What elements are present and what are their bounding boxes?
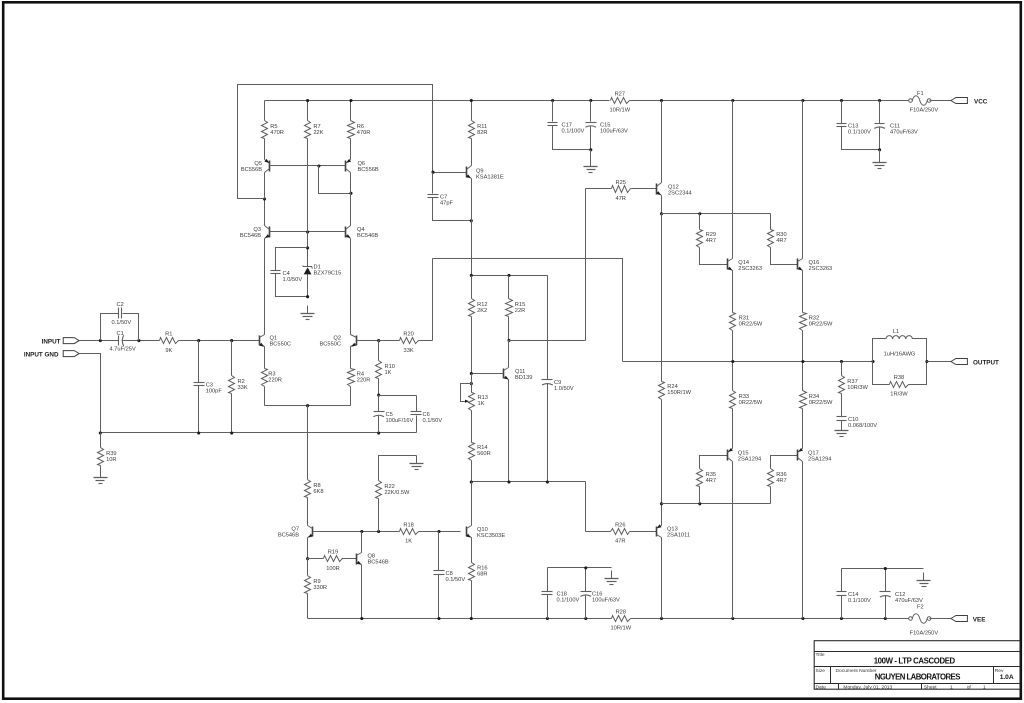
transistor Q6 bbox=[346, 159, 352, 173]
transistor Q9 bbox=[466, 166, 471, 179]
wire C4 branch top bbox=[276, 248, 308, 271]
fuse F1 bbox=[909, 91, 939, 114]
wire Q3 emitter to Q1 collector bbox=[264, 239, 266, 335]
junction bot C8 bbox=[437, 617, 440, 620]
label Q4 bbox=[357, 227, 378, 239]
svg-text:2K2: 2K2 bbox=[477, 308, 487, 314]
svg-text:9K: 9K bbox=[165, 348, 172, 354]
junction input node A bbox=[99, 339, 102, 342]
transistor Q14 bbox=[728, 259, 733, 271]
wire Q14 collector bbox=[732, 101, 734, 259]
svg-text:82R: 82R bbox=[477, 130, 487, 136]
resistor R5 bbox=[262, 101, 284, 160]
capacitor C8 bbox=[434, 532, 466, 619]
resistor R36 bbox=[768, 456, 798, 504]
wire Q8 emitter bbox=[361, 565, 363, 619]
svg-text:R26: R26 bbox=[615, 522, 625, 528]
svg-text:4R7: 4R7 bbox=[776, 478, 786, 484]
svg-text:R27: R27 bbox=[615, 91, 625, 97]
transistor Q7 bbox=[308, 526, 313, 538]
wire Q6 collector down bbox=[350, 173, 352, 194]
junction C4 tap bbox=[306, 246, 309, 249]
svg-text:Document Number: Document Number bbox=[836, 668, 877, 674]
wire Q3-Q4 base rail bbox=[270, 231, 346, 233]
svg-text:4R7: 4R7 bbox=[706, 238, 716, 244]
svg-text:470uF/63V: 470uF/63V bbox=[890, 130, 918, 136]
junction 482 at Q11 bbox=[507, 480, 510, 483]
connector VEE bbox=[951, 616, 968, 622]
resistor R25 bbox=[586, 180, 657, 202]
svg-text:Rev: Rev bbox=[995, 668, 1004, 674]
svg-text:1.0/50V: 1.0/50V bbox=[283, 277, 303, 283]
junction bot Q15 bbox=[731, 617, 734, 620]
junction rail C17 bbox=[551, 99, 554, 102]
junction R15/Q11 collector bbox=[507, 339, 510, 342]
wire Q9 emitter chain bbox=[471, 179, 473, 221]
ground under R22 bbox=[410, 456, 424, 470]
svg-text:INPUT: INPUT bbox=[42, 338, 61, 345]
junction C12 top bbox=[884, 567, 887, 570]
svg-text:F1: F1 bbox=[917, 91, 924, 97]
junction bot R16 bbox=[470, 617, 473, 620]
wire bottom rail right bbox=[631, 618, 909, 620]
resistor R11 bbox=[469, 101, 488, 166]
capacitor C12 bbox=[880, 569, 924, 619]
wire F1 to VCC tab bbox=[930, 100, 951, 102]
inductor L1 bbox=[873, 329, 927, 361]
resistor R16 bbox=[469, 538, 488, 619]
svg-text:470R: 470R bbox=[270, 130, 284, 136]
wire C1 to R1 bbox=[123, 340, 160, 342]
transistor Q10 bbox=[466, 526, 471, 538]
junction C1 right bbox=[137, 339, 140, 342]
wire Q12 emitter bbox=[661, 196, 663, 214]
capacitor C6 bbox=[411, 396, 443, 433]
svg-text:10R/1W: 10R/1W bbox=[610, 108, 631, 114]
junction rail Q16 bbox=[801, 99, 804, 102]
svg-text:10R/3W: 10R/3W bbox=[847, 385, 868, 391]
wire C18/C16 top bbox=[548, 567, 612, 569]
wire driver top rail bbox=[662, 213, 771, 215]
title block bbox=[814, 641, 1020, 691]
svg-text:47R: 47R bbox=[615, 196, 625, 202]
junction Q12 emitter node bbox=[660, 212, 663, 215]
label Q9 bbox=[476, 169, 504, 181]
svg-text:100pF: 100pF bbox=[206, 389, 223, 395]
resistor R22 bbox=[376, 456, 417, 532]
svg-text:KSA1381E: KSA1381E bbox=[476, 175, 504, 181]
wire Q4 emitter to Q2 collector bbox=[350, 239, 352, 335]
svg-text:0.1/50V: 0.1/50V bbox=[423, 418, 443, 424]
svg-text:R28: R28 bbox=[616, 609, 626, 615]
svg-text:2SA1294: 2SA1294 bbox=[808, 456, 831, 462]
label Q7 bbox=[278, 526, 299, 538]
svg-text:22R: 22R bbox=[515, 308, 525, 314]
svg-text:33K: 33K bbox=[238, 385, 248, 391]
transistor Q12 bbox=[656, 183, 661, 196]
svg-text:Sheet: Sheet bbox=[924, 684, 937, 690]
label Q10 bbox=[477, 527, 505, 539]
svg-text:C1: C1 bbox=[117, 331, 124, 337]
svg-text:0.1/100V: 0.1/100V bbox=[557, 598, 580, 604]
capacitor C10 bbox=[837, 417, 878, 430]
resistor R33 bbox=[730, 362, 763, 449]
resistor R18 bbox=[400, 522, 461, 544]
resistor R29 bbox=[697, 214, 728, 265]
capacitor C15 bbox=[585, 101, 628, 150]
wire VAS output node bbox=[472, 481, 586, 483]
resistor R4 bbox=[348, 347, 371, 406]
capacitor C11 bbox=[874, 101, 918, 150]
svg-text:22K/0.5W: 22K/0.5W bbox=[384, 490, 410, 496]
capacitor C4 bbox=[271, 271, 303, 284]
svg-text:of: of bbox=[967, 684, 972, 690]
junction out R37 bbox=[840, 360, 843, 363]
wire VCC rail left bbox=[265, 100, 610, 102]
junction R10/C5 node bbox=[377, 394, 380, 397]
label Q15 bbox=[738, 450, 761, 462]
wire Q13 emitter up bbox=[661, 504, 663, 526]
svg-text:2SA1294: 2SA1294 bbox=[738, 456, 761, 462]
transistor Q3 bbox=[265, 226, 270, 239]
svg-text:BD139: BD139 bbox=[515, 375, 532, 381]
svg-text:R38: R38 bbox=[894, 375, 904, 381]
wire D1 to ground node bbox=[307, 275, 309, 297]
transistor Q16 bbox=[798, 259, 803, 271]
svg-text:560R: 560R bbox=[477, 451, 491, 457]
junction C3 tap bbox=[197, 339, 200, 342]
wire VCC rail right bbox=[630, 100, 909, 102]
junction out L1 right bbox=[925, 360, 928, 363]
svg-text:BC550C: BC550C bbox=[270, 342, 292, 348]
resistor R34 bbox=[800, 362, 834, 449]
junction Q11 base bbox=[470, 372, 473, 375]
wire to OUTPUT tab bbox=[927, 361, 951, 363]
junction tail bbox=[306, 404, 309, 407]
svg-text:100uF/16V: 100uF/16V bbox=[386, 418, 414, 424]
resistor R3 bbox=[262, 347, 282, 406]
label Q14 bbox=[738, 260, 762, 272]
junction rail C11 bbox=[878, 99, 881, 102]
junction C15 bottom bbox=[589, 148, 592, 151]
svg-text:0R22/5W: 0R22/5W bbox=[739, 400, 763, 406]
junction bot Q13 bbox=[660, 617, 663, 620]
svg-text:2SC3263: 2SC3263 bbox=[809, 266, 833, 272]
wire Q17 collector bbox=[802, 462, 804, 619]
svg-text:33K: 33K bbox=[404, 348, 414, 354]
diode D1 zener bbox=[303, 264, 342, 276]
svg-text:4.7uF/25V: 4.7uF/25V bbox=[110, 347, 136, 353]
label Q5 bbox=[241, 161, 262, 173]
junction rail R7 bbox=[306, 99, 309, 102]
resistor R38 bbox=[873, 362, 927, 398]
junction gnd rail at R2 bbox=[230, 431, 233, 434]
junction rail C13 bbox=[840, 99, 843, 102]
junction R22 bottom bbox=[377, 530, 380, 533]
junction R29 top bbox=[698, 212, 701, 215]
wire F2 to VEE tab bbox=[930, 618, 951, 620]
resistor R13 preset bbox=[461, 374, 488, 443]
svg-text:0R22/5W: 0R22/5W bbox=[739, 321, 763, 327]
resistor R1 bbox=[160, 331, 179, 353]
label Q3 bbox=[240, 227, 261, 239]
capacitor C7 bbox=[428, 173, 472, 221]
label Q8 bbox=[368, 553, 389, 565]
svg-text:1: 1 bbox=[950, 684, 953, 690]
svg-text:R25: R25 bbox=[615, 180, 625, 186]
resistor R20 bbox=[379, 331, 433, 353]
transistor Q15 bbox=[728, 448, 733, 462]
svg-text:47R: 47R bbox=[615, 539, 625, 545]
junction out R32/R34 bbox=[801, 360, 804, 363]
wire Q7 base line bbox=[313, 531, 400, 533]
resistor R30 bbox=[768, 214, 798, 265]
svg-text:BC546B: BC546B bbox=[240, 233, 261, 239]
wire Q12 collector bbox=[661, 101, 663, 183]
connector J-INPUT-GND bbox=[63, 351, 79, 357]
label Q12 bbox=[668, 184, 692, 196]
svg-text:0.1/100V: 0.1/100V bbox=[848, 130, 871, 136]
transistor Q11 bbox=[504, 368, 509, 380]
svg-text:F10A/250V: F10A/250V bbox=[910, 108, 939, 114]
wire Q11 collector bbox=[508, 341, 510, 368]
svg-text:150R/1W: 150R/1W bbox=[667, 390, 691, 396]
svg-text:KSC3503E: KSC3503E bbox=[477, 533, 505, 539]
svg-text:0R22/5W: 0R22/5W bbox=[809, 321, 833, 327]
svg-text:1K: 1K bbox=[405, 539, 412, 545]
svg-text:22K: 22K bbox=[313, 130, 323, 136]
junction base rail center bbox=[306, 230, 309, 233]
svg-text:100uF/63V: 100uF/63V bbox=[592, 598, 620, 604]
svg-text:INPUT GND: INPUT GND bbox=[24, 351, 59, 358]
svg-text:68R: 68R bbox=[477, 572, 487, 578]
junction bot C18 bbox=[546, 617, 549, 620]
svg-text:10R/1W: 10R/1W bbox=[611, 626, 632, 632]
junction bot C12 bbox=[884, 617, 887, 620]
junction Q9 base/C7 bbox=[431, 171, 434, 174]
svg-text:1: 1 bbox=[983, 684, 986, 690]
svg-text:330R: 330R bbox=[313, 585, 327, 591]
svg-text:VCC: VCC bbox=[974, 99, 988, 106]
junction rail Q12 bbox=[660, 99, 663, 102]
resistor R24 bbox=[659, 214, 692, 504]
svg-text:Title: Title bbox=[816, 652, 825, 658]
svg-text:0.1/100V: 0.1/100V bbox=[848, 598, 871, 604]
capacitor C5 bbox=[373, 396, 413, 433]
junction R13 wiper tap bbox=[470, 382, 473, 385]
resistor R14 bbox=[469, 443, 491, 482]
wire output rail bbox=[623, 361, 873, 363]
svg-text:100R: 100R bbox=[326, 566, 340, 572]
wire cascode loop bbox=[238, 85, 433, 199]
capacitor C16 bbox=[580, 568, 620, 619]
svg-text:4R7: 4R7 bbox=[776, 238, 786, 244]
junction bot C14 bbox=[840, 617, 843, 620]
svg-text:470uF/63V: 470uF/63V bbox=[895, 598, 923, 604]
junction gnd rail at R39 bbox=[99, 431, 102, 434]
wire R15 node to R25 column bbox=[509, 340, 586, 342]
wire C14/C12 top bbox=[842, 568, 924, 570]
wire Q7 emitter bbox=[307, 538, 309, 559]
label Q17 bbox=[808, 450, 831, 462]
svg-text:47pF: 47pF bbox=[440, 200, 453, 206]
wire C15 gnd stub bbox=[590, 150, 592, 159]
wire input to C1 bbox=[80, 340, 119, 342]
svg-text:L1: L1 bbox=[893, 329, 899, 335]
wire mirror base rail bbox=[270, 165, 346, 167]
fuse F2 bbox=[909, 604, 939, 636]
svg-text:BC546B: BC546B bbox=[368, 559, 389, 565]
capacitor C13 bbox=[837, 101, 880, 150]
connector OUTPUT bbox=[951, 359, 968, 365]
svg-text:0.1/100V: 0.1/100V bbox=[562, 128, 585, 134]
label Q1 bbox=[270, 336, 292, 348]
junction Q13 emitter node bbox=[660, 502, 663, 505]
svg-text:470R: 470R bbox=[357, 130, 371, 136]
resistor R19 bbox=[308, 550, 357, 572]
wire base rail to D1 bbox=[307, 232, 309, 267]
wire Q10 collector bbox=[471, 482, 473, 526]
wire LTP tail bbox=[265, 405, 351, 407]
svg-text:D1: D1 bbox=[314, 264, 321, 270]
junction R12 top bbox=[470, 274, 473, 277]
wire C5C6 top bbox=[379, 395, 417, 397]
svg-text:F2: F2 bbox=[917, 604, 924, 610]
svg-text:BZX79C15: BZX79C15 bbox=[314, 271, 342, 277]
transistor Q2 bbox=[351, 335, 357, 347]
resistor R7 bbox=[305, 101, 324, 232]
junction 482 at C9 bbox=[546, 480, 549, 483]
junction R15 top bbox=[507, 274, 510, 277]
junction Q6 collector tie bbox=[349, 192, 352, 195]
wire Q5 collector down bbox=[264, 173, 266, 199]
svg-text:R19: R19 bbox=[328, 550, 338, 556]
wire tail down to R8 bbox=[307, 406, 309, 480]
junction Q8 collector bbox=[360, 530, 363, 533]
junction D1 ground node bbox=[306, 295, 309, 298]
wire Q11 base bbox=[472, 373, 504, 375]
wire Q2 base to R10 node bbox=[357, 340, 379, 342]
junction rail Q14 bbox=[731, 99, 734, 102]
ground under R39 bbox=[94, 470, 108, 484]
svg-text:Size: Size bbox=[816, 668, 826, 674]
junction R2 tap bbox=[230, 339, 233, 342]
capacitor C9 bbox=[542, 276, 574, 482]
svg-text:6K8: 6K8 bbox=[313, 489, 323, 495]
wire Q8 collector bbox=[361, 532, 363, 553]
svg-text:0.1/50V: 0.1/50V bbox=[112, 320, 132, 326]
resistor R28 bbox=[611, 609, 632, 631]
svg-text:1K: 1K bbox=[385, 370, 392, 376]
junction 482 at R14 bbox=[470, 480, 473, 483]
capacitor C17 bbox=[548, 101, 591, 150]
resistor R2 bbox=[229, 341, 248, 433]
junction R35 bottom bbox=[698, 502, 701, 505]
svg-text:0.1/50V: 0.1/50V bbox=[446, 577, 466, 583]
svg-text:NGUYEN LABORATORES: NGUYEN LABORATORES bbox=[875, 672, 961, 681]
resistor R31 bbox=[730, 271, 763, 362]
wire Q11 emitter bbox=[508, 380, 510, 482]
ground under C15 bbox=[584, 159, 598, 173]
wire Q15 collector bbox=[732, 462, 734, 619]
junction rail R6 bbox=[349, 99, 352, 102]
capacitor C1 bbox=[110, 331, 136, 352]
svg-text:BC550C: BC550C bbox=[320, 342, 342, 348]
resistor R8 bbox=[305, 480, 324, 526]
svg-text:1uH/16AWG: 1uH/16AWG bbox=[884, 351, 916, 357]
svg-text:1.0A: 1.0A bbox=[1000, 674, 1014, 681]
transistor Q1 bbox=[259, 335, 264, 347]
transistor Q4 bbox=[346, 226, 351, 239]
junction bot Q17 bbox=[801, 617, 804, 620]
wire C2 branch bbox=[101, 314, 119, 341]
junction rail C15 bbox=[589, 99, 592, 102]
ground under C16 group bbox=[605, 571, 619, 585]
junction Q7 emitter bbox=[306, 557, 309, 560]
svg-text:1K: 1K bbox=[478, 401, 485, 407]
junction Q2 base node bbox=[377, 339, 380, 342]
svg-text:Date: Date bbox=[816, 684, 827, 690]
connector VCC bbox=[951, 98, 968, 104]
wire R12/R15 top rail bbox=[472, 275, 548, 277]
label Q6 bbox=[358, 161, 379, 173]
transistor Q8 bbox=[357, 553, 362, 565]
junction Q5/Q3 node bbox=[263, 197, 266, 200]
svg-text:0.068/100V: 0.068/100V bbox=[848, 423, 877, 429]
svg-text:10R: 10R bbox=[106, 457, 116, 463]
svg-text:R18: R18 bbox=[403, 522, 413, 528]
svg-text:BC546B: BC546B bbox=[357, 233, 378, 239]
svg-text:2SC2344: 2SC2344 bbox=[668, 190, 692, 196]
svg-text:100W - LTP CASCODED: 100W - LTP CASCODED bbox=[874, 657, 956, 666]
resistor R26 bbox=[586, 522, 657, 544]
resistor R27 bbox=[610, 91, 631, 113]
resistor R35 bbox=[697, 456, 728, 504]
svg-text:VEE: VEE bbox=[973, 616, 986, 623]
label Q16 bbox=[809, 260, 833, 272]
junction gnd rail at C3 bbox=[197, 431, 200, 434]
ground under D1 bbox=[301, 306, 315, 320]
wire Q3 collector up bbox=[264, 199, 266, 226]
svg-text:220R: 220R bbox=[357, 377, 371, 383]
label Q2 bbox=[320, 336, 342, 348]
svg-text:BC556B: BC556B bbox=[241, 167, 262, 173]
connector J-INPUT bbox=[63, 338, 79, 344]
capacitor C3 bbox=[194, 341, 223, 433]
junction C11 bottom bbox=[878, 148, 881, 151]
svg-text:R20: R20 bbox=[403, 331, 413, 337]
resistor R39 bbox=[98, 433, 117, 471]
resistor R9 bbox=[305, 559, 328, 619]
junction gnd rail at C5 bbox=[377, 431, 380, 434]
ground under C10 bbox=[835, 423, 849, 437]
ground under C11 bbox=[873, 155, 887, 169]
wire ground rail bbox=[101, 432, 417, 434]
transistor Q13 bbox=[657, 524, 662, 537]
svg-text:0R22/5W: 0R22/5W bbox=[809, 400, 833, 406]
wire Q13 collector down bbox=[661, 538, 663, 619]
junction bot Q8 bbox=[360, 617, 363, 620]
junction Q9 emitter/C7 bbox=[470, 219, 473, 222]
resistor R15 bbox=[506, 276, 526, 341]
wire bottom rail left bbox=[308, 618, 612, 620]
svg-text:2SC3263: 2SC3263 bbox=[738, 266, 762, 272]
junction out R31/R33 bbox=[731, 360, 734, 363]
junction R18/C8 bbox=[437, 530, 440, 533]
junction bot C16 bbox=[584, 617, 587, 620]
resistor R12 bbox=[469, 276, 488, 374]
wire feedback top bbox=[433, 259, 623, 362]
